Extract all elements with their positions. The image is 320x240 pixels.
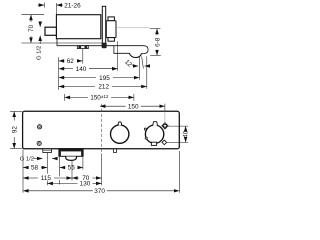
dim 115 xyxy=(23,174,72,183)
dim 130 xyxy=(48,181,102,188)
svg-text:150: 150 xyxy=(128,104,139,111)
outlet housing bottom xyxy=(59,149,83,161)
ext front edge xyxy=(146,56,148,88)
svg-text:21-26: 21-26 xyxy=(64,2,81,9)
base / underside with spout housing xyxy=(57,39,148,54)
12 deg annotation xyxy=(123,57,149,71)
svg-text:58: 58 xyxy=(31,165,39,172)
dim 55 xyxy=(60,165,83,172)
svg-text:212: 212 xyxy=(98,84,109,91)
centerline xyxy=(116,27,149,29)
dim 6-8 xyxy=(150,29,162,56)
dim 40 xyxy=(167,126,190,142)
svg-text:G 1/2: G 1/2 xyxy=(36,46,42,60)
screw bottom xyxy=(37,141,41,145)
wall bracket under body xyxy=(77,46,88,49)
dim 212 xyxy=(59,84,147,91)
dim 62 xyxy=(59,58,83,65)
svg-text:G 1/2: G 1/2 xyxy=(20,157,34,163)
right thermostat knob xyxy=(144,122,163,146)
svg-text:70: 70 xyxy=(28,24,35,32)
centerline dashed xyxy=(101,104,103,154)
shower holder stub xyxy=(114,149,117,153)
svg-text:40: 40 xyxy=(183,130,190,138)
handle (side) xyxy=(106,17,116,41)
dim 195 xyxy=(59,75,139,82)
dim 70 front xyxy=(72,175,101,182)
svg-text:55: 55 xyxy=(68,165,76,172)
body xyxy=(56,15,100,39)
dim 150+-12 xyxy=(65,94,134,102)
dim 150 front xyxy=(100,104,165,123)
svg-text:92: 92 xyxy=(12,126,19,134)
dim 70 xyxy=(22,15,104,43)
select diamond bottom xyxy=(162,140,167,145)
ext handle front xyxy=(117,41,119,70)
left handle knob xyxy=(111,122,129,143)
inlet union bottom xyxy=(43,149,52,153)
svg-text:130: 130 xyxy=(80,181,91,188)
label G 1/2 front xyxy=(20,157,57,163)
G1/2 wall nipple xyxy=(45,27,56,35)
wall reference extension xyxy=(58,57,60,90)
dim 92 xyxy=(10,111,22,148)
dim 140 xyxy=(59,66,118,73)
select diamond top xyxy=(162,123,168,129)
svg-text:6-8: 6-8 xyxy=(154,37,161,47)
spout outlet bump xyxy=(129,53,141,57)
svg-text:195: 195 xyxy=(99,75,110,82)
dim 21-26 xyxy=(38,2,81,14)
ext spout / 12deg ref xyxy=(138,57,140,80)
svg-text:115: 115 xyxy=(41,175,52,182)
screw top xyxy=(38,125,42,129)
svg-text:62: 62 xyxy=(67,58,75,65)
svg-text:140: 140 xyxy=(76,66,87,73)
ext lines front bottom xyxy=(22,149,24,193)
body front xyxy=(23,111,180,148)
svg-text:370: 370 xyxy=(94,188,105,195)
nipple pointer dim xyxy=(39,22,41,44)
escutcheon plate xyxy=(102,6,107,48)
dim 370 xyxy=(23,187,179,195)
dim 58 xyxy=(23,165,47,172)
ext bracket xyxy=(82,49,84,64)
